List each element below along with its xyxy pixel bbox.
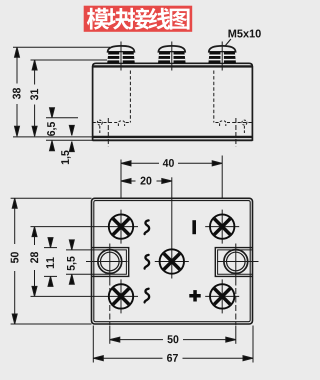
screw terminal 1 (front)	[108, 46, 135, 52]
front view: extension line top (38)	[13, 46, 110, 48]
symbol minus (rotated)	[192, 220, 196, 234]
symbol ~ middle	[145, 255, 150, 269]
terminal AC bottom-left	[109, 284, 133, 308]
mounting notch left	[92, 248, 129, 277]
dim 50 left	[11, 197, 92, 199]
terminal AC middle	[160, 249, 184, 273]
symbol plus	[189, 290, 200, 301]
bottom ext lines	[11, 323, 92, 325]
screw terminal 2 (front)	[158, 46, 185, 52]
leader line to screw	[224, 39, 231, 47]
front view: baseplate bottom line	[46, 139, 93, 141]
mounting hole right	[224, 250, 248, 274]
terminal DC- top-right	[210, 214, 234, 238]
label M5x10	[228, 30, 260, 38]
mounting hole left	[98, 250, 122, 274]
plan view: plate outline	[92, 198, 253, 324]
dim 5.5	[66, 249, 92, 251]
hidden cavity lines right	[214, 71, 252, 147]
plan ext lines 28	[31, 226, 105, 228]
symbol ~ top	[145, 220, 150, 234]
front view: extension line deck (31)	[31, 59, 108, 61]
dim 50 bottom	[110, 339, 163, 341]
screw terminal 3 (front)	[209, 46, 236, 52]
title box 模块接线图	[84, 6, 193, 32]
terminal AC top-left	[109, 214, 133, 238]
symbol ~ bottom	[145, 289, 150, 303]
front view: body bottom line	[13, 136, 93, 138]
terminal DC+ bottom-right	[210, 284, 234, 308]
dim 20	[121, 180, 136, 182]
mounting notch right	[215, 248, 252, 277]
dim 38	[16, 47, 18, 83]
dim 40	[121, 162, 159, 164]
dim 11	[44, 247, 57, 249]
dim 28	[34, 227, 36, 245]
dim 31	[34, 60, 36, 85]
dim 1.5	[71, 126, 73, 135]
dim 67 bottom	[93, 357, 162, 359]
hidden cavity lines left	[93, 71, 131, 147]
front view: module body outline	[93, 63, 253, 141]
dim 6.5	[46, 117, 78, 119]
